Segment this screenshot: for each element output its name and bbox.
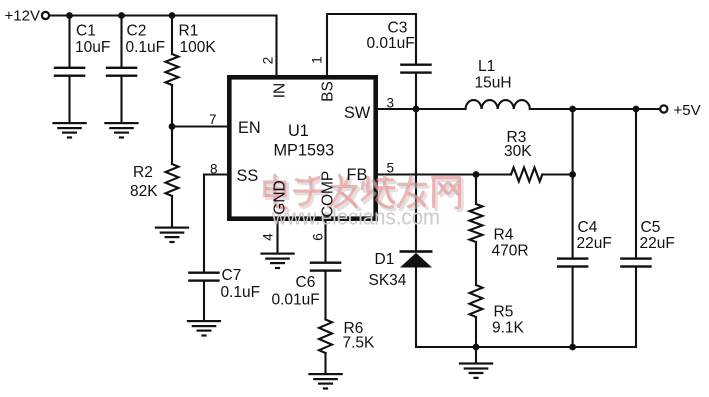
svg-text:COMP: COMP — [320, 171, 337, 218]
svg-text:C4: C4 — [578, 219, 598, 236]
svg-text:8: 8 — [210, 162, 218, 177]
svg-text:30K: 30K — [504, 143, 532, 160]
svg-text:0.1uF: 0.1uF — [126, 39, 166, 56]
svg-text:D1: D1 — [375, 251, 395, 268]
svg-text:R4: R4 — [494, 227, 514, 244]
svg-text:9.1K: 9.1K — [492, 320, 525, 337]
svg-text:MP1593: MP1593 — [274, 142, 335, 160]
svg-text:22uF: 22uF — [577, 235, 612, 252]
svg-text:FB: FB — [347, 166, 368, 184]
svg-text:SW: SW — [344, 104, 371, 122]
svg-text:470R: 470R — [492, 243, 529, 260]
svg-text:C3: C3 — [388, 20, 408, 37]
svg-text:GND: GND — [272, 180, 289, 214]
svg-text:0.1uF: 0.1uF — [221, 284, 261, 301]
svg-text:10uF: 10uF — [75, 39, 110, 56]
svg-text:U1: U1 — [288, 122, 309, 140]
svg-text:IN: IN — [272, 83, 289, 99]
svg-text:0.01uF: 0.01uF — [367, 35, 415, 52]
svg-text:+5V: +5V — [674, 102, 701, 119]
svg-text:22uF: 22uF — [640, 235, 675, 252]
svg-text:15uH: 15uH — [475, 75, 512, 92]
svg-text:7.5K: 7.5K — [343, 335, 376, 352]
svg-text:82K: 82K — [130, 183, 158, 200]
svg-text:C7: C7 — [222, 267, 242, 284]
svg-text:EN: EN — [238, 119, 261, 137]
svg-text:R5: R5 — [494, 304, 514, 321]
svg-text:R2: R2 — [133, 164, 153, 181]
svg-text:6: 6 — [311, 233, 326, 241]
svg-text:BS: BS — [320, 81, 337, 102]
svg-text:C6: C6 — [296, 274, 316, 291]
svg-text:5: 5 — [387, 161, 395, 176]
svg-text:L1: L1 — [478, 58, 495, 75]
svg-text:3: 3 — [387, 96, 395, 111]
svg-text:2: 2 — [261, 57, 276, 65]
svg-text:7: 7 — [209, 112, 217, 127]
svg-text:C1: C1 — [76, 23, 96, 40]
svg-text:4: 4 — [261, 233, 276, 241]
svg-text:1: 1 — [310, 56, 325, 64]
svg-text:100K: 100K — [180, 39, 217, 56]
svg-text:SK34: SK34 — [369, 272, 407, 289]
svg-text:+12V: +12V — [5, 8, 40, 25]
svg-text:SS: SS — [237, 167, 259, 185]
svg-text:R1: R1 — [179, 23, 199, 40]
svg-text:0.01uF: 0.01uF — [272, 292, 320, 309]
svg-text:C5: C5 — [641, 219, 661, 236]
svg-text:www.elecians.com: www.elecians.com — [271, 205, 440, 230]
svg-text:C2: C2 — [127, 23, 147, 40]
